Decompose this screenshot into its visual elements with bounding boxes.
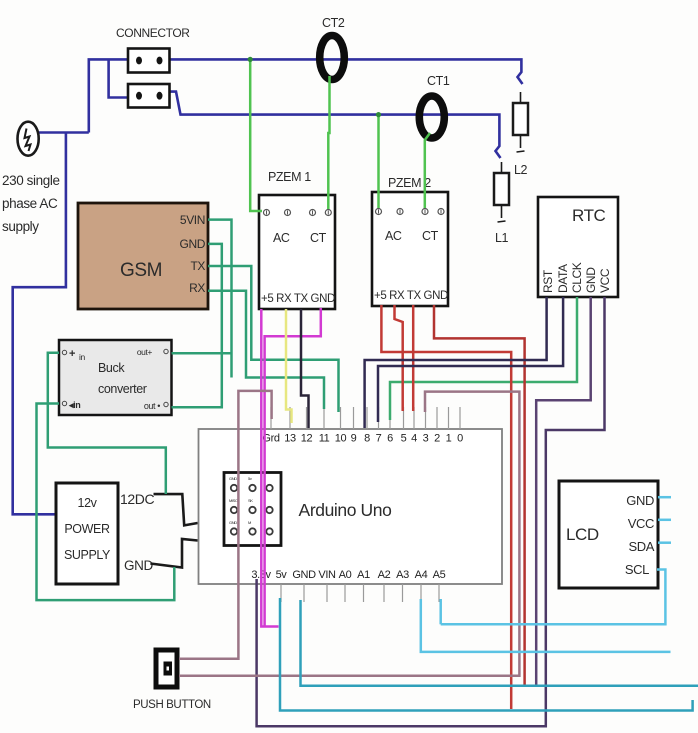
wire: GSM GND teal down to buck out- rail — [172, 244, 222, 407]
wire: push button bottom to Arduino pin 3 — [179, 392, 519, 676]
svg-text:A0: A0 — [339, 569, 352, 581]
connector block 2 — [128, 84, 170, 108]
svg-text:VIN: VIN — [318, 569, 336, 581]
svg-text:+5 RX TX GND: +5 RX TX GND — [374, 290, 448, 302]
wire: black crimp 12DC to Arduino — [154, 494, 198, 525]
svg-text:CT1: CT1 — [427, 74, 450, 88]
wire: buck -in loop to PSU GND — [37, 404, 175, 601]
RTC module — [538, 197, 618, 297]
wire: AC supply to junction — [39, 131, 89, 134]
wire: RTC CLCK green to Arduino pin 6 — [390, 297, 577, 420]
svg-text:TX: TX — [190, 259, 205, 273]
wire: GSM RX teal to Arduino pin 11 — [208, 291, 324, 409]
LCD module — [559, 481, 658, 588]
wire: green mains2 tap to PZEM2 AC terminal — [377, 115, 380, 208]
wire: push button top to Arduino Grd — [179, 391, 272, 659]
svg-text:1: 1 — [446, 433, 452, 445]
wire: green CT2 to PZEM1 CT terminal — [328, 76, 329, 209]
wire: RTC DATA navy to Arduino pin 7 — [378, 297, 563, 422]
wire: LCD SCL cyan down to A5 line — [441, 570, 666, 625]
svg-text:CT: CT — [310, 231, 327, 245]
svg-text:A3: A3 — [396, 569, 409, 581]
svg-text:phase AC: phase AC — [2, 196, 58, 211]
svg-text:5: 5 — [401, 433, 407, 445]
svg-text:SUPPLY: SUPPLY — [64, 548, 111, 562]
wire: lead into L2 — [520, 92, 522, 103]
Arduino top pin stubs — [271, 407, 460, 429]
svg-text:10: 10 — [335, 433, 347, 445]
node: green tap junction on mains 1 — [248, 57, 253, 62]
svg-text:GND: GND — [584, 267, 598, 293]
buck converter — [59, 340, 172, 415]
wire: RTC GND purple down to gnd rail — [536, 297, 591, 685]
push button — [156, 650, 177, 687]
svg-text:converter: converter — [98, 382, 147, 396]
svg-text:+: + — [69, 348, 75, 360]
svg-text:11: 11 — [319, 433, 330, 445]
wire: connector 2 to L1 through CT1 — [170, 92, 501, 158]
svg-text:5VIN: 5VIN — [180, 213, 205, 227]
svg-text:CT2: CT2 — [322, 16, 345, 30]
svg-text:AC: AC — [273, 231, 290, 245]
svg-text:+5 RX TX GND: +5 RX TX GND — [261, 293, 335, 305]
svg-text:PZEM 1: PZEM 1 — [268, 170, 311, 184]
wire: RTC VCC purple to Arduino 3.3v — [257, 297, 605, 726]
wire: AC supply left loop to 12v power supply — [13, 133, 66, 515]
load L2 — [513, 103, 528, 135]
svg-text:Buck: Buck — [98, 361, 125, 375]
svg-text:8: 8 — [364, 433, 370, 445]
svg-text:GND: GND — [180, 237, 206, 251]
svg-text:Arduino Uno: Arduino Uno — [299, 500, 392, 520]
svg-text:13: 13 — [284, 433, 296, 445]
svg-text:12: 12 — [301, 433, 313, 445]
wire: lead into L1 — [501, 162, 503, 173]
svg-text:3: 3 — [423, 433, 429, 445]
svg-text:SCL: SCL — [625, 562, 649, 577]
svg-text:◂in: ◂in — [68, 400, 80, 410]
svg-text:M: M — [248, 520, 251, 525]
svg-text:VCC: VCC — [598, 268, 612, 293]
svg-text:out+: out+ — [137, 347, 153, 357]
wire: PZEM2 RX red to Arduino pin 5 — [395, 305, 403, 411]
svg-text:7: 7 — [376, 433, 382, 445]
svg-text:230 single: 230 single — [2, 173, 60, 188]
wire: LCD VCC stub — [658, 519, 671, 522]
svg-text:DATA: DATA — [556, 264, 570, 293]
svg-text:in: in — [79, 352, 85, 362]
Arduino bottom pin stubs — [261, 584, 439, 602]
svg-text:RX: RX — [189, 281, 205, 295]
wire: GSM TX teal to Arduino pin 10 — [208, 266, 339, 412]
svg-text:CLCK: CLCK — [570, 262, 584, 293]
svg-text:A4: A4 — [415, 569, 428, 581]
Arduino Uno board — [199, 429, 503, 584]
svg-text:GND: GND — [292, 569, 316, 581]
wire: green mains tap to PZEM1 AC terminal — [250, 59, 262, 211]
svg-text:CT: CT — [422, 229, 439, 243]
PZEM 1 module — [259, 195, 335, 309]
wire: buck +in loop to 12DC — [48, 353, 166, 494]
svg-text:POWER: POWER — [64, 522, 110, 536]
svg-text:12DC: 12DC — [120, 491, 154, 507]
svg-text:CONNECTOR: CONNECTOR — [116, 26, 190, 40]
svg-text:VCC: VCC — [628, 516, 654, 531]
current transformer CT2 — [320, 36, 345, 80]
svg-text:GND: GND — [229, 476, 237, 481]
wire: Arduino GND teal rail to right edge — [301, 600, 698, 686]
230V AC supply source symbol — [18, 122, 39, 156]
svg-text:MISO: MISO — [229, 498, 238, 503]
svg-text:GND: GND — [626, 493, 654, 508]
wire: PZEM2 GND red to lower gnd rail — [434, 305, 525, 685]
wire: LCD SDA stub — [658, 541, 671, 544]
svg-text:out •: out • — [144, 401, 160, 411]
svg-text:GSM: GSM — [120, 260, 162, 281]
svg-text:GND: GND — [124, 558, 153, 573]
wire: branch down to connector 2 — [109, 59, 128, 97]
svg-text:A2: A2 — [378, 569, 391, 581]
Arduino top pin labels — [262, 433, 463, 445]
svg-text:9: 9 — [351, 433, 357, 445]
svg-text:L2: L2 — [514, 163, 528, 177]
svg-text:L1: L1 — [495, 231, 509, 245]
wire: L1 bottom tick — [501, 205, 503, 218]
wire: PZEM1 RX yellow to Arduino pin 13 — [286, 309, 292, 423]
wire: connector 1 to L2 through CT2 — [170, 59, 523, 84]
svg-text:5v: 5v — [248, 476, 252, 481]
svg-text:4: 4 — [411, 433, 417, 445]
wire: PZEM1 TX dark to Arduino pin 12 — [301, 309, 309, 428]
wire: Arduino A5 cyan joining LCD SCL — [439, 599, 442, 624]
wire: black crimp GND to Arduino — [150, 539, 197, 568]
wire: junction up to top mains line — [89, 59, 128, 132]
wire: Arduino A4 cyan to right — [421, 599, 671, 652]
Arduino ICSP header — [224, 473, 281, 546]
12v power supply — [56, 483, 118, 584]
svg-text:A5: A5 — [433, 569, 446, 581]
svg-text:GND: GND — [229, 520, 237, 525]
svg-text:2: 2 — [434, 433, 440, 445]
wire: green CT1 to PZEM2 CT terminal — [425, 133, 430, 208]
svg-text:6: 6 — [387, 433, 393, 445]
svg-text:RTC: RTC — [572, 206, 606, 225]
svg-text:AC: AC — [385, 229, 402, 243]
svg-text:12v: 12v — [78, 496, 98, 510]
current transformer CT1 — [419, 96, 444, 138]
wire: LCD GND stub — [658, 496, 671, 499]
wire: PZEM2 +5 red to bottom rail — [381, 305, 511, 709]
connector block 1 — [128, 49, 170, 73]
wire: PZEM1 GND magenta down left then to bottom — [265, 308, 321, 627]
node: green tap junction on mains 2 — [376, 112, 381, 117]
svg-text:supply: supply — [2, 219, 39, 234]
svg-text:SDA: SDA — [628, 539, 654, 554]
svg-text:LCD: LCD — [566, 525, 599, 544]
svg-text:RST: RST — [541, 269, 555, 293]
wire: Arduino 5v teal rail to right edge — [280, 598, 693, 711]
wire: PZEM2 TX red to Arduino pin 4 — [412, 305, 415, 411]
wire: L2 bottom tick — [520, 135, 522, 148]
load L1 — [494, 173, 509, 205]
svg-text:PUSH BUTTON: PUSH BUTTON — [133, 699, 211, 711]
wire: GSM 5VIN teal down to pin11 rail — [208, 220, 232, 378]
svg-text:A1: A1 — [357, 569, 370, 581]
svg-text:5v: 5v — [276, 569, 288, 581]
wire: buck out+ to 5VIN rail — [172, 352, 232, 355]
wire: PZEM1 +5 magenta down to 5v rail — [261, 309, 278, 627]
wire: RTC RST navy to Arduino pin 8 — [365, 297, 547, 428]
svg-text:0: 0 — [457, 433, 463, 445]
svg-text:SK: SK — [248, 498, 253, 503]
GSM module — [78, 203, 208, 309]
PZEM 2 module — [372, 192, 448, 306]
Arduino bottom pin labels — [251, 569, 445, 581]
